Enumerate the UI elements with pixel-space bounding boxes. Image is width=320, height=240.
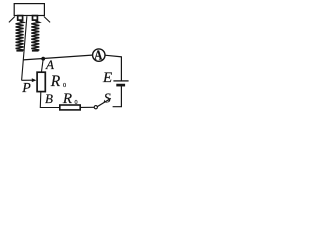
wire from box down to wiper corner bbox=[22, 16, 27, 80]
right platform diagonal bbox=[44, 17, 50, 23]
svg-text:S: S bbox=[104, 91, 111, 106]
svg-text:R: R bbox=[62, 91, 72, 107]
left spring bottom end coil bbox=[16, 50, 23, 52]
wire ammeter to right corner bbox=[105, 55, 122, 57]
rheostat R0 body bbox=[37, 72, 45, 91]
svg-text:R: R bbox=[50, 73, 61, 90]
wire battery up to top-right corner bbox=[120, 57, 122, 81]
right spring bbox=[31, 21, 39, 51]
battery long thin plate bbox=[113, 80, 128, 82]
right spring bottom end coil bbox=[32, 50, 39, 52]
wire bottom-right corner up to battery bbox=[113, 86, 122, 107]
box (mass) on spring platform bbox=[14, 4, 44, 16]
svg-text:P: P bbox=[21, 81, 31, 96]
right foot of box bbox=[33, 16, 38, 21]
svg-text:A: A bbox=[45, 57, 54, 72]
switch S pivot circle bbox=[94, 106, 97, 109]
node junction dot bbox=[41, 57, 45, 61]
ammeter U1 circle bbox=[93, 49, 105, 61]
wire wiper horizontal bbox=[22, 79, 34, 81]
wire junction down to rheostat terminal A bbox=[42, 59, 44, 72]
svg-text:A: A bbox=[94, 48, 102, 63]
svg-text:0: 0 bbox=[63, 82, 66, 89]
svg-text:E: E bbox=[102, 70, 112, 86]
battery short thick plate bbox=[116, 84, 125, 87]
left platform diagonal bbox=[9, 17, 15, 23]
wire resistor to switch bbox=[81, 106, 94, 108]
wire from rheostat bottom to resistor bbox=[40, 92, 59, 107]
wiper arrow P into rheostat bbox=[32, 78, 37, 82]
wire main horizontal to ammeter bbox=[23, 55, 92, 60]
resistor R0 (bottom) bbox=[60, 105, 80, 110]
svg-text:0: 0 bbox=[75, 99, 78, 106]
left foot of box bbox=[18, 16, 23, 21]
switch lever bbox=[97, 98, 111, 106]
svg-text:B: B bbox=[45, 91, 53, 106]
left spring bbox=[16, 21, 24, 51]
